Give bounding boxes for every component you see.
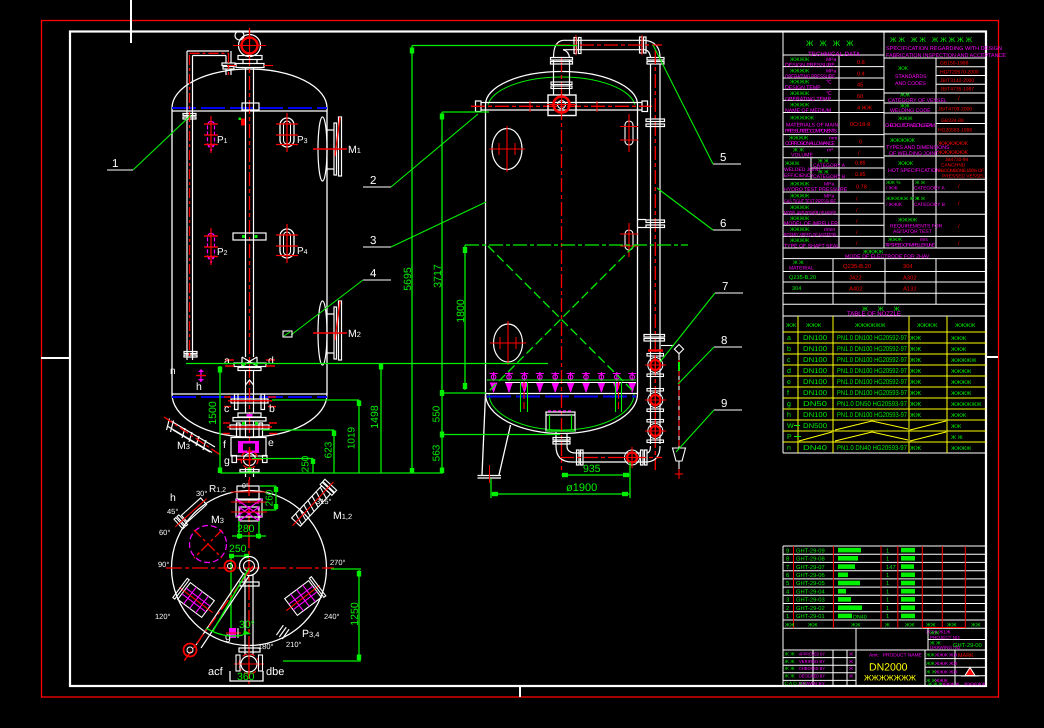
svg-text:9: 9	[786, 547, 789, 554]
svg-text:h: h	[170, 492, 176, 504]
svg-text:5: 5	[786, 581, 789, 587]
svg-text:1: 1	[886, 581, 889, 587]
svg-text:935: 935	[583, 463, 601, 475]
centering mark top	[130, 0, 132, 43]
svg-text:1: 1	[886, 598, 889, 604]
vessel2 top dome	[486, 72, 638, 105]
svg-text:90°: 90°	[158, 560, 169, 569]
svg-text:ЖЖ: ЖЖ	[971, 622, 981, 628]
vessel1 centerline	[249, 28, 251, 480]
svg-text:DESIGNED BY: DESIGNED BY	[799, 674, 825, 679]
svg-text:304: 304	[792, 286, 801, 292]
svg-text:M1: M1	[348, 144, 361, 156]
nozzle M3 inclined	[164, 417, 222, 456]
plan nozzle 240deg	[279, 576, 327, 620]
svg-text:623: 623	[324, 441, 335, 458]
svg-text:WELDING CODE: WELDING CODE	[890, 108, 931, 114]
svg-text:GHT-29-00: GHT-29-00	[953, 642, 982, 649]
handhole ellipse upper	[489, 126, 525, 172]
svg-text:ЖЖЖ ЖЖ: ЖЖЖ ЖЖ	[935, 653, 958, 658]
svg-text:M3: M3	[211, 514, 224, 526]
svg-text:GHT-29-05: GHT-29-05	[796, 580, 825, 587]
svg-text:acf: acf	[208, 666, 224, 678]
svg-text:240°: 240°	[324, 612, 340, 621]
svg-text:VERIFIED BY: VERIFIED BY	[799, 659, 825, 664]
svg-text:ЖЖ: ЖЖ	[786, 323, 796, 329]
top pipe bridge	[551, 35, 665, 64]
svg-text:1: 1	[886, 606, 889, 612]
svg-text:DN100: DN100	[803, 357, 827, 364]
svg-text:0.85: 0.85	[855, 161, 866, 167]
dim 1498	[380, 364, 382, 474]
svg-text:ЖЖЖЖ: ЖЖЖЖ	[951, 380, 971, 386]
vessel1 bottom blue line	[172, 396, 327, 398]
support leg	[478, 394, 511, 483]
svg-text:AGITATOR TEST: AGITATOR TEST	[893, 229, 932, 235]
svg-text:MODE OF ELECTRODE FOR 2HAV: MODE OF ELECTRODE FOR 2HAV	[845, 254, 930, 260]
n-level extension line	[186, 363, 548, 365]
svg-text:MATERIAL: MATERIAL	[789, 266, 814, 272]
svg-text:ЖЖЖЖЖЖ: ЖЖЖЖЖЖ	[938, 141, 968, 147]
svg-text:ЖЖ: ЖЖ	[910, 412, 922, 419]
svg-text:ЖЖЖ/ЖЖ: ЖЖЖ/ЖЖ	[964, 682, 986, 687]
dim 5695	[411, 46, 413, 474]
svg-text:ЖЖЖЖЖ: ЖЖЖЖЖ	[951, 358, 976, 364]
svg-text:CHECKOUT OF WELDING SEAM: CHECKOUT OF WELDING SEAM	[885, 123, 935, 129]
svg-text:1500: 1500	[207, 401, 219, 425]
centering mark left	[41, 357, 70, 359]
svg-text:a: a	[224, 355, 230, 367]
distributor support box	[546, 411, 575, 431]
dim 360	[230, 671, 263, 683]
svg-text:c: c	[224, 403, 229, 415]
svg-text:260: 260	[265, 489, 276, 506]
svg-text:HBOOMBONE 100% OF: HBOOMBONE 100% OF	[938, 168, 984, 174]
svg-text:ЖЖ: ЖЖ	[910, 357, 922, 364]
svg-text:GHT-29-01: GHT-29-01	[796, 613, 825, 620]
svg-text:EFFICIENCY: EFFICIENCY	[784, 173, 814, 179]
svg-text:DN2000: DN2000	[869, 662, 908, 674]
handhole ellipse lower	[490, 321, 526, 365]
svg-text:ЖЖЖЖЖЖЖ: ЖЖЖЖЖЖЖ	[864, 674, 917, 683]
svg-text:5: 5	[720, 152, 726, 164]
svg-text:2: 2	[786, 605, 789, 612]
svg-text:0: 0	[859, 140, 862, 146]
svg-text:1: 1	[886, 589, 889, 595]
svg-text:2: 2	[370, 175, 376, 187]
svg-text:/ ЖЖЖ: / ЖЖЖ	[886, 202, 903, 208]
svg-text:7: 7	[786, 565, 789, 571]
svg-text:ЖЖЖЖ: ЖЖЖЖ	[917, 323, 937, 329]
green X cross dashed	[488, 246, 634, 392]
svg-text:DN100: DN100	[803, 390, 827, 397]
symbol h (vent)	[196, 369, 206, 393]
svg-text:ЖЖ: ЖЖ	[947, 622, 957, 628]
svg-text:JB/T4735-1997: JB/T4735-1997	[940, 87, 974, 93]
plan nozzle g	[225, 628, 241, 643]
svg-text:30°: 30°	[239, 619, 255, 631]
svg-text:℃: ℃	[826, 91, 832, 97]
svg-text:GHT-29-02: GHT-29-02	[796, 605, 825, 612]
svg-text:DN40: DN40	[853, 614, 867, 620]
svg-text:250: 250	[301, 455, 312, 472]
svg-text:J422: J422	[849, 275, 862, 282]
svg-text:DN100: DN100	[803, 412, 827, 419]
svg-text:Q235-B,20: Q235-B,20	[789, 275, 816, 281]
dim 1800	[464, 245, 466, 390]
vessel2 bottom head	[486, 394, 638, 434]
svg-text:1: 1	[886, 548, 889, 554]
svg-text:1: 1	[886, 573, 889, 579]
bottom outlet nozzle and pipe	[553, 432, 662, 468]
nozzle P4	[276, 224, 308, 263]
bottom baseline	[220, 472, 443, 474]
vessel1 top dome	[172, 69, 327, 108]
svg-text:ЖЖ ЖЖ ЖЖЖЖЖ: ЖЖ ЖЖ ЖЖЖЖЖ	[890, 37, 974, 44]
svg-text:ЖЖЖЖЖЖ: ЖЖЖЖЖЖ	[938, 150, 968, 156]
svg-text:f: f	[223, 439, 226, 451]
svg-text:DN100: DN100	[803, 335, 827, 342]
svg-text:MARK: MARK	[958, 653, 974, 659]
plan circle	[172, 491, 327, 646]
svg-text:6: 6	[786, 572, 789, 579]
svg-text:PROJECT NO.: PROJECT NO.	[930, 635, 961, 640]
svg-text:3: 3	[370, 235, 376, 247]
centering mark right	[986, 356, 998, 358]
svg-text:CATEGORY B: CATEGORY B	[813, 174, 846, 180]
svg-text:Amt: PRODUCT NAME: Amt: PRODUCT NAME	[869, 653, 922, 659]
svg-text:DN100: DN100	[803, 346, 827, 353]
svg-text:0.4: 0.4	[857, 71, 865, 77]
svg-text:W: W	[787, 423, 794, 430]
dim phi1900	[491, 493, 630, 495]
svg-text:GHT-29-04: GHT-29-04	[796, 588, 825, 595]
svg-text:DRAWN BY: DRAWN BY	[799, 681, 825, 686]
svg-text:ЖЖ %: ЖЖ %	[886, 180, 901, 186]
svg-text:AND CODES: AND CODES	[895, 81, 926, 87]
svg-text:210°: 210°	[286, 640, 302, 649]
vessel1 bottom head	[172, 394, 327, 437]
svg-text:CATEGORY A: CATEGORY A	[914, 186, 945, 192]
plan nozzle 210deg stub	[276, 625, 289, 639]
plan center rings	[225, 561, 236, 572]
svg-text:ЖЖЖ: ЖЖЖ	[951, 413, 966, 419]
svg-text:NAME OF MEDIUM: NAME OF MEDIUM	[785, 108, 831, 114]
vessel1 bottom weld line	[172, 393, 327, 395]
svg-text:GHT-29-06: GHT-29-06	[796, 572, 825, 579]
svg-text:Ж Ж: Ж Ж	[785, 666, 796, 672]
svg-text:e: e	[268, 437, 274, 449]
svg-text:ЖЖ: ЖЖ	[910, 368, 922, 375]
svg-text:Ж Ж: Ж Ж	[785, 652, 796, 658]
svg-text:g: g	[224, 455, 230, 467]
svg-text:4 ЖЖ: 4 ЖЖ	[857, 106, 873, 112]
svg-text:DN50: DN50	[803, 401, 827, 408]
wall nozzle stub upper	[620, 114, 638, 152]
svg-text:STANDARDS: STANDARDS	[895, 74, 927, 80]
vessel1 top tangent blue line	[172, 107, 327, 109]
dim 935	[562, 474, 631, 476]
plan crosshair	[166, 567, 334, 569]
svg-text:8: 8	[721, 335, 727, 347]
svg-text:h: h	[787, 411, 791, 419]
svg-text:ЖЖ: ЖЖ	[910, 346, 922, 353]
svg-text:ЖЖ: ЖЖ	[926, 622, 936, 628]
vessel2 bottom blue line	[487, 396, 636, 398]
nozzle P3	[276, 113, 308, 152]
svg-text:Ж Ж: Ж Ж	[915, 180, 926, 186]
svg-text:1: 1	[886, 557, 889, 563]
svg-text:c: c	[787, 357, 791, 364]
svg-text:PN1.0 DN100 HG20592-97: PN1.0 DN100 HG20592-97	[837, 379, 907, 386]
svg-text:CHECKED BY: CHECKED BY	[799, 666, 825, 671]
plan bottom flanged circle	[234, 649, 264, 679]
svg-text:/ ЖЖ: / ЖЖ	[886, 186, 898, 192]
svg-text:0°: 0°	[242, 483, 249, 490]
vessel1 top weld line	[172, 110, 327, 112]
svg-text:d: d	[268, 355, 274, 367]
svg-text:JB/T4709-2000: JB/T4709-2000	[938, 107, 972, 113]
svg-text:270°: 270°	[330, 558, 346, 567]
svg-text:Ж Ж: Ж Ж	[785, 674, 796, 680]
svg-text:DN100: DN100	[803, 368, 827, 375]
dim 3717	[441, 112, 443, 473]
svg-text:120°: 120°	[155, 612, 171, 621]
svg-text:ЖЖ: ЖЖ	[898, 66, 908, 72]
svg-text:GB324-88: GB324-88	[941, 118, 964, 124]
central feed valve	[547, 60, 576, 119]
svg-text:APPROVED BY: APPROVED BY	[799, 652, 825, 657]
svg-text:GHT-29-03: GHT-29-03	[796, 597, 825, 604]
svg-text:PRESSED VESSEL: PRESSED VESSEL	[942, 174, 985, 180]
internal downpipe	[183, 51, 235, 360]
nozzle P2	[204, 228, 228, 265]
manhole M2	[313, 301, 361, 365]
svg-text:1019: 1019	[347, 426, 358, 449]
svg-text:ЖЖЖ: ЖЖЖ	[898, 116, 913, 122]
plan nozzle h (30/45deg)	[171, 494, 211, 532]
svg-text:PN1.0 DN100 HG20592-97: PN1.0 DN100 HG20592-97	[837, 357, 907, 364]
svg-text:ЖЖЖЖ: ЖЖЖЖ	[955, 323, 975, 329]
svg-text:ЖЖЖ: ЖЖЖ	[888, 237, 902, 243]
svg-text:HG20583-1998: HG20583-1998	[938, 128, 972, 134]
svg-text:ЖЖ: ЖЖ	[785, 622, 795, 628]
svg-text:ЖЖ: ЖЖ	[808, 622, 818, 628]
svg-text:Ж Ж: Ж Ж	[785, 659, 796, 665]
agitator drive top	[227, 30, 273, 68]
svg-text:304: 304	[903, 263, 913, 270]
svg-text:OF WELDING JOINT: OF WELDING JOINT	[889, 151, 939, 157]
spray pipe top	[471, 101, 652, 112]
svg-text:0Cr18-9: 0Cr18-9	[850, 122, 870, 128]
svg-text:PN1.0 DN100 HG20593-97: PN1.0 DN100 HG20593-97	[837, 390, 907, 397]
svg-text:ЖЖ: ЖЖ	[910, 390, 922, 397]
bottom agitator assembly	[223, 357, 277, 477]
svg-text:7: 7	[722, 281, 728, 293]
level gauge item8/9	[661, 344, 686, 479]
svg-text:MPa: MPa	[826, 57, 837, 63]
svg-text:ЖЖ: ЖЖ	[910, 401, 922, 408]
svg-text:PN1.0 DN100 HG20592-97: PN1.0 DN100 HG20592-97	[837, 335, 907, 342]
svg-text:TIP SPEED OF IMPELLER LINE: TIP SPEED OF IMPELLER LINE	[885, 243, 935, 249]
svg-text:TYPE OF SHAFT SEAL: TYPE OF SHAFT SEAL	[784, 244, 839, 250]
svg-text:60°: 60°	[159, 528, 170, 537]
svg-text:PRESSURIZED COMPONENTS: PRESSURIZED COMPONENTS	[785, 129, 838, 135]
svg-text:30°: 30°	[196, 489, 207, 498]
valve 2	[645, 389, 666, 412]
svg-text:g: g	[225, 631, 231, 643]
svg-text:FABRICATION INSPECTION AND ACC: FABRICATION INSPECTION AND ACCEPTANCE	[886, 53, 1006, 59]
svg-text:A302: A302	[903, 275, 917, 282]
plan diagonal rod	[184, 566, 254, 661]
svg-text:ЖЖ: ЖЖ	[910, 445, 922, 452]
svg-text:n: n	[787, 445, 791, 452]
svg-text:M2: M2	[348, 328, 361, 340]
svg-text:1250: 1250	[349, 602, 361, 626]
vessel1 shell walls	[171, 108, 173, 394]
svg-text:e: e	[787, 379, 791, 386]
svg-text:ЖЖЖЖ: ЖЖЖЖ	[806, 39, 860, 48]
svg-text:CATEGORY OF VESSEL: CATEGORY OF VESSEL	[888, 98, 947, 104]
vessel2 bottom weld line	[486, 393, 638, 395]
svg-text:PN1.0 DN100 HG20593-97: PN1.0 DN100 HG20593-97	[837, 412, 907, 419]
svg-text:ЖЖЖ ЖЖ: ЖЖЖ ЖЖ	[935, 661, 958, 666]
svg-text:ЖЖ: ЖЖ	[851, 622, 861, 628]
svg-text:1: 1	[786, 614, 789, 620]
svg-text:ЖЖЖ ЖЖ: ЖЖЖ ЖЖ	[935, 670, 958, 675]
svg-text:ЖЖ: ЖЖ	[926, 653, 935, 659]
svg-text:ЖЖЖ: ЖЖЖ	[806, 323, 821, 329]
svg-text:CATEGORY A: CATEGORY A	[813, 163, 846, 169]
svg-text:ЖЖЖЖЖ: ЖЖЖЖЖ	[790, 116, 814, 122]
svg-text:3717: 3717	[432, 264, 444, 288]
svg-text:ЖЖЖ: ЖЖЖ	[951, 347, 966, 353]
dim 1500	[219, 366, 221, 473]
svg-text:DN500: DN500	[803, 423, 827, 430]
svg-text:ø1900: ø1900	[566, 482, 597, 494]
svg-text:GHT-29-08: GHT-29-08	[796, 556, 825, 563]
svg-text:Q235-B.20: Q235-B.20	[843, 263, 871, 270]
agitator shaft	[233, 68, 266, 358]
valve 3	[645, 420, 666, 443]
svg-text:b: b	[269, 403, 275, 415]
svg-text:CATEGORY B: CATEGORY B	[914, 202, 945, 208]
dim 1250	[283, 569, 361, 661]
svg-text:9: 9	[721, 398, 727, 410]
svg-text:SPECIFICATION REGARDING WITH: SPECIFICATION REGARDING WITH DESIGN	[886, 46, 1002, 52]
svg-text:A132: A132	[903, 286, 917, 293]
right riser pipe	[638, 50, 665, 470]
distributor downpipes	[521, 382, 622, 412]
svg-text:M1,2: M1,2	[333, 510, 352, 522]
svg-text:a: a	[787, 335, 791, 342]
svg-text:MPa: MPa	[826, 68, 837, 74]
svg-text:ЖЖ: ЖЖ	[910, 379, 922, 386]
svg-text:GHT-29-07: GHT-29-07	[796, 564, 825, 571]
svg-text:ЖЖЖЖ: ЖЖЖЖ	[951, 391, 971, 397]
svg-text:PN1.0 DN100 HG20592-97: PN1.0 DN100 HG20592-97	[837, 346, 907, 353]
svg-text:5695: 5695	[402, 267, 414, 291]
svg-text:h: h	[196, 381, 202, 393]
dim 1019	[358, 400, 360, 473]
svg-text:360: 360	[237, 671, 255, 683]
svg-text:HOT SPECIFICATION: HOT SPECIFICATION	[888, 168, 940, 174]
svg-text:1498: 1498	[369, 405, 381, 429]
svg-text:ЖЖЖЖ: ЖЖЖЖ	[951, 446, 971, 452]
svg-text:dbe: dbe	[266, 666, 284, 678]
dim 250	[312, 459, 314, 474]
svg-text:147: 147	[886, 565, 896, 571]
svg-text:Ж Ж: Ж Ж	[951, 435, 963, 441]
svg-text:ЖЖЖ.Ж: ЖЖЖ.Ж	[942, 682, 959, 687]
svg-text:b: b	[787, 345, 791, 353]
svg-text:0.8: 0.8	[857, 60, 865, 66]
spray nozzle row (distributor)	[490, 372, 637, 393]
svg-text:1: 1	[886, 614, 889, 620]
svg-text:m/s: m/s	[920, 237, 928, 243]
svg-text:DN40: DN40	[803, 445, 827, 452]
centering mark bottom	[519, 686, 521, 697]
svg-text:f: f	[787, 389, 789, 397]
svg-text:M3: M3	[177, 440, 190, 452]
svg-text:PN1.0 DN100 HG20592-97: PN1.0 DN100 HG20592-97	[837, 368, 907, 375]
svg-text:TABLE OF NOZZLE: TABLE OF NOZZLE	[847, 311, 901, 318]
svg-text:Ж Ж: Ж Ж	[915, 196, 926, 202]
svg-text:Ж: Ж	[849, 666, 853, 671]
svg-text:PN1.0 DN50 HG20593-97: PN1.0 DN50 HG20593-97	[837, 401, 907, 408]
svg-text:PN1.0 DN40 HG20593-97: PN1.0 DN40 HG20593-97	[837, 445, 907, 452]
svg-text:ЖЖЖ: ЖЖЖ	[898, 161, 913, 167]
valve 1	[645, 354, 666, 377]
svg-text:ЖЖ: ЖЖ	[910, 335, 922, 342]
svg-text:HG/T20570-2000: HG/T20570-2000	[940, 69, 979, 75]
plan top nozzle W	[231, 486, 267, 521]
border frame white	[70, 32, 986, 687]
svg-text:g: g	[787, 401, 791, 408]
svg-text:m³: m³	[827, 148, 833, 154]
svg-text:6: 6	[720, 218, 726, 230]
svg-text:0.78: 0.78	[856, 185, 867, 191]
svg-text:ЖЖ: ЖЖ	[905, 622, 915, 628]
dim 260	[260, 486, 278, 510]
dim 280	[232, 521, 266, 539]
plan nozzle 120deg	[172, 578, 220, 622]
svg-text:Ж Ж Ж: Ж Ж Ж	[928, 682, 943, 687]
plan nozzle M1,2 (315deg)	[287, 476, 340, 531]
svg-text:A402: A402	[849, 286, 863, 293]
svg-text:Ж: Ж	[849, 674, 853, 679]
svg-text:P3,4: P3,4	[302, 628, 319, 640]
nozzle P1	[204, 116, 228, 153]
svg-text:CORROSION ALLOWANCE: CORROSION ALLOWANCE	[785, 141, 836, 147]
green centerline dashdot	[465, 244, 688, 246]
svg-text:60: 60	[857, 94, 863, 100]
svg-text:DN100: DN100	[803, 379, 827, 386]
svg-text:280: 280	[237, 523, 255, 535]
svg-text:550: 550	[432, 405, 443, 422]
svg-text:JB/T3142-2000: JB/T3142-2000	[940, 78, 974, 84]
M3 dashed circle	[190, 514, 227, 563]
plan 30deg dim	[206, 568, 255, 636]
svg-text:8: 8	[786, 556, 789, 563]
svg-text:0.85: 0.85	[855, 172, 866, 178]
tray green line	[487, 379, 636, 381]
svg-text:ЖЖ: ЖЖ	[951, 424, 961, 430]
svg-text:1: 1	[112, 158, 118, 170]
svg-text:GB150-1998: GB150-1998	[940, 61, 969, 67]
svg-text:45: 45	[857, 83, 863, 89]
svg-text:250: 250	[229, 543, 247, 555]
